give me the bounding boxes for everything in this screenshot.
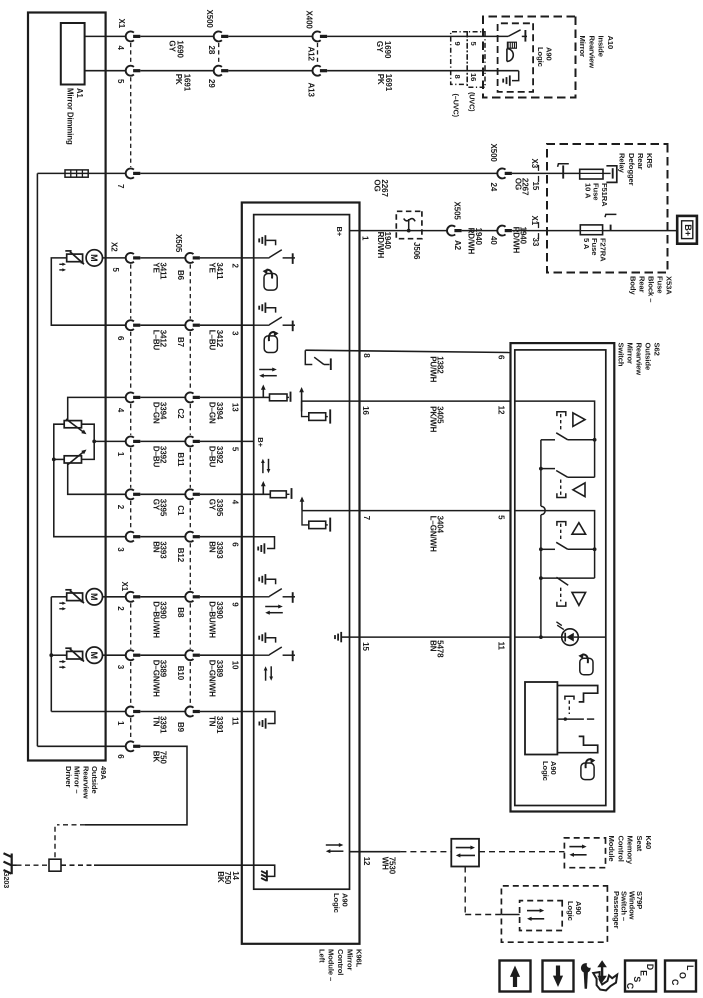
sensor right bus: [82, 424, 95, 459]
svg-text:B8: B8: [176, 607, 185, 618]
svg-text:J506: J506: [412, 242, 421, 260]
svg-text:TN: TN: [151, 716, 160, 727]
S62 fold switch logic box: [525, 682, 557, 755]
pin 7 wire and feedback resistor: [301, 500, 303, 511]
logic box A90 inside S79P (dashed): [520, 901, 563, 931]
row I in-line feedback resistor: [254, 493, 271, 495]
svg-text:X400: X400: [304, 11, 313, 30]
connector X1 pin 3: [126, 650, 134, 660]
svg-text:6: 6: [116, 336, 125, 341]
icon LOC: [665, 961, 696, 992]
fuse holder clip row C: [603, 172, 611, 174]
wire 1690 GY row (A1 pin 4): [85, 35, 127, 37]
triangle right indicator: [572, 592, 586, 605]
svg-text:K96L: K96L: [355, 949, 364, 968]
fuse block pin marks X3-15: [538, 165, 540, 171]
connector X1 pin 7 (in-line): [126, 168, 134, 178]
svg-text:X500: X500: [205, 10, 214, 29]
up-down arrow pair icon: [262, 462, 264, 474]
svg-text:1: 1: [360, 236, 369, 241]
connector X505 pin C1: [185, 489, 193, 499]
svg-text:14: 14: [231, 871, 240, 880]
connector X505 pin B7: [185, 320, 193, 330]
svg-text:D–GN/WH: D–GN/WH: [151, 660, 160, 697]
icon repair wrench with arrows: [581, 963, 591, 973]
wire row H from sensor junction: [94, 440, 126, 442]
S62 left bus down with crossover hop at pin 5 wire: [540, 469, 542, 507]
connector X1 pin 1: [126, 707, 134, 717]
data link box (solid) with arrows: [451, 839, 479, 867]
svg-text:D–GN: D–GN: [208, 402, 217, 424]
S62 switch down (triangle down): [541, 468, 555, 470]
connector X505 pin B12: [185, 532, 193, 542]
svg-text:3: 3: [116, 665, 125, 670]
connector X505 pin B8: [185, 592, 193, 602]
S62 group A: pin 12 feed: [515, 401, 595, 440]
connector X1 pin 5 (in-line): [126, 66, 134, 76]
svg-text:Rearview: Rearview: [81, 766, 90, 799]
svg-text:X3: X3: [530, 159, 539, 169]
fold switch top contact: [557, 686, 597, 702]
svg-text:M: M: [89, 593, 99, 601]
ground return inside A10 (PK wire): [512, 71, 519, 81]
svg-text:Outside: Outside: [90, 766, 99, 794]
svg-text:X1: X1: [120, 582, 129, 592]
svg-text:6: 6: [496, 355, 505, 360]
svg-text:5: 5: [111, 268, 120, 273]
svg-text:Passenger: Passenger: [612, 891, 621, 929]
component A1 Mirror Dimming element box: [61, 23, 85, 85]
wire row C inside KR5: [512, 172, 580, 174]
svg-text:Logic: Logic: [332, 893, 341, 913]
svg-text:GY: GY: [151, 499, 160, 511]
svg-text:D–BU/WH: D–BU/WH: [151, 601, 160, 638]
LED light rays: [556, 622, 561, 626]
wire row H (connector to module): [140, 440, 185, 442]
svg-text:B+: B+: [335, 227, 344, 237]
mirror actuator icon: [67, 651, 83, 659]
svg-text:4: 4: [230, 500, 239, 505]
svg-text:WH: WH: [380, 857, 389, 870]
svg-text:12: 12: [362, 857, 371, 866]
svg-text:2: 2: [230, 264, 239, 269]
svg-text:BK: BK: [216, 871, 225, 883]
svg-text:A10: A10: [606, 36, 615, 50]
svg-text:10: 10: [230, 661, 239, 670]
mirror actuator icon: [67, 593, 83, 601]
option box (-UVC) dash-dot: [451, 32, 468, 85]
svg-text:Outside: Outside: [644, 343, 653, 371]
connector X1 pin 4 (in-line): [126, 31, 134, 41]
connector X2 pin 3: [126, 532, 134, 542]
svg-text:28: 28: [207, 46, 216, 55]
wire 2267 OG from dimming cell: [37, 172, 126, 174]
svg-text:GY: GY: [208, 499, 217, 511]
svg-text:C: C: [670, 979, 680, 986]
splice block square: [49, 859, 61, 871]
terminal B+ box: [677, 216, 697, 244]
up-down arrow pair icon: [265, 669, 267, 681]
svg-text:Rear: Rear: [637, 276, 646, 293]
svg-text:2: 2: [116, 505, 125, 510]
svg-text:Logic: Logic: [566, 901, 575, 921]
svg-text:OG: OG: [513, 178, 522, 190]
wire row G (connector to module): [140, 396, 185, 398]
svg-text:B7: B7: [176, 337, 185, 348]
svg-text:E: E: [638, 970, 648, 976]
S62 switch right (triangle right): [541, 577, 595, 579]
svg-text:Rearview: Rearview: [587, 36, 596, 69]
svg-text:A2: A2: [453, 240, 462, 251]
dashed wire to K40 module: [479, 851, 564, 853]
chassis ground inside K96L: [266, 870, 268, 881]
fuse F51RA 10 A: [580, 169, 603, 179]
arrows inside K40: [569, 846, 583, 848]
dome lamp inside A10: [507, 42, 516, 48]
fuse block pin marks X1-33: [538, 222, 540, 228]
svg-text:1: 1: [116, 721, 125, 726]
svg-text:X1: X1: [530, 216, 539, 226]
left-right arrow pair icon: [259, 369, 274, 371]
icon scroll down: [543, 961, 574, 992]
connector X2 pin 1: [126, 436, 134, 446]
svg-text:Left: Left: [317, 949, 326, 963]
svg-text:PU/WH: PU/WH: [428, 356, 437, 382]
svg-text:15: 15: [361, 642, 370, 651]
svg-text:L: L: [685, 965, 695, 971]
svg-text:3: 3: [116, 547, 125, 552]
wire 1691 PK row (A1 pin 5): [85, 70, 127, 72]
module box S79P Window Switch - Passenger (dashed): [501, 886, 607, 942]
svg-text:X2: X2: [110, 242, 119, 252]
svg-text:4: 4: [116, 46, 125, 51]
splice pack J506 (dashed box): [396, 211, 422, 238]
svg-text:Block –: Block –: [646, 276, 655, 302]
svg-text:B10: B10: [176, 666, 185, 681]
svg-text:D–GN: D–GN: [151, 402, 160, 424]
svg-text:11: 11: [496, 642, 505, 651]
connector X2 pin 6: [126, 320, 134, 330]
wire row J (connector to module): [140, 536, 185, 538]
svg-text:Body: Body: [628, 276, 637, 295]
svg-text:S: S: [632, 976, 642, 982]
svg-text:M: M: [89, 651, 99, 659]
sensor wiper arrow 2: [67, 452, 84, 465]
relay contact on row D: [610, 225, 612, 231]
wire row G to sensor wiper 1: [68, 397, 126, 420]
wire 750 BK dashed to splice: [57, 824, 85, 826]
svg-text:A1: A1: [75, 88, 84, 99]
connector X400 pin A13: [312, 66, 320, 76]
svg-text:Control: Control: [336, 949, 345, 975]
wire X2-5 row: [103, 257, 127, 259]
svg-text:Defogger: Defogger: [627, 153, 636, 186]
dashed wire to K40: [400, 851, 451, 853]
svg-text:BN: BN: [208, 541, 217, 553]
svg-text:B11: B11: [176, 452, 185, 467]
mirror glass pictogram: [580, 658, 593, 675]
wire row K: [103, 596, 127, 598]
fold switch common: [557, 718, 584, 720]
svg-text:6: 6: [230, 542, 239, 547]
svg-text:C: C: [625, 983, 635, 990]
connector X1 pin 6 (750 BK): [126, 741, 134, 751]
wire row L: [103, 654, 127, 656]
svg-text:L–GN/WH: L–GN/WH: [428, 516, 437, 553]
mirror actuator icon: [67, 254, 83, 262]
fuse F27RA 5 A: [580, 225, 602, 235]
svg-text:Mirror Dimming: Mirror Dimming: [66, 88, 75, 145]
connector face X500 dashed link: [218, 43, 220, 64]
svg-text:Mirror: Mirror: [578, 36, 587, 57]
svg-text:2: 2: [116, 606, 125, 611]
connector X505 pin B10: [185, 650, 193, 660]
connector X505 pin A2: [447, 226, 455, 236]
S62 illumination wire (pin 11) through LED: [515, 636, 562, 638]
svg-text:B+: B+: [256, 437, 265, 447]
wire row I to sensor wiper 2: [68, 463, 126, 494]
movement arrows: [59, 661, 63, 663]
svg-text:Relay: Relay: [618, 153, 627, 174]
row G in-line feedback resistor: [254, 396, 270, 398]
connector X505 pin B6: [185, 253, 193, 263]
svg-text:C1: C1: [176, 505, 185, 516]
svg-text:Seat: Seat: [635, 836, 644, 852]
icon scroll up: [500, 961, 531, 992]
button link dashes (right): [560, 588, 562, 602]
svg-text:L–BU: L–BU: [151, 330, 160, 351]
triangle left indicator: [572, 523, 586, 535]
svg-text:Mirror: Mirror: [345, 949, 354, 970]
svg-text:PK/WH: PK/WH: [428, 406, 437, 432]
svg-text:5: 5: [230, 447, 239, 452]
wire row M (3391 TN return): [51, 711, 126, 713]
svg-text:5: 5: [496, 515, 505, 520]
svg-text:29: 29: [207, 79, 216, 88]
svg-text:B12: B12: [176, 548, 185, 563]
ground G203: [11, 854, 13, 875]
svg-text:X505: X505: [174, 234, 183, 253]
wire pin 14 inside K96L to chassis ground: [242, 865, 275, 876]
svg-text:49A: 49A: [99, 766, 108, 780]
svg-text:Mirror: Mirror: [625, 343, 634, 364]
svg-text:8: 8: [362, 353, 371, 358]
relay contact KR5 on row C: [562, 165, 564, 178]
wire pin 12 (7530 WH): [350, 851, 401, 853]
switch inside A10 on GY wire: [508, 30, 520, 37]
svg-text:(UVC): (UVC): [468, 92, 477, 112]
svg-text:Switch: Switch: [616, 343, 625, 367]
connector X400 pin A12: [312, 31, 320, 41]
svg-text:O: O: [678, 972, 688, 979]
connector face X1 dashed link: [130, 43, 132, 64]
svg-text:GY: GY: [375, 41, 384, 53]
sensor resistor 2: [64, 456, 81, 463]
connector X2 pin 4: [126, 392, 134, 402]
fuse block box KR5/X53A (dashed): [547, 144, 668, 273]
mirror glass pictogram: [581, 763, 594, 780]
wire row I (connector to module): [140, 493, 185, 495]
outlined branch arrow: [593, 972, 617, 990]
svg-text:13: 13: [230, 403, 239, 412]
svg-text:Rearview: Rearview: [635, 343, 644, 376]
wire row D to B+ terminal: [603, 230, 677, 232]
wire into S79P inner box: [501, 914, 519, 916]
sensor resistor 1: [64, 421, 81, 428]
svg-text:10 A: 10 A: [583, 183, 592, 199]
svg-text:7: 7: [362, 516, 371, 521]
svg-text:12: 12: [496, 406, 505, 415]
triangle down indicator: [573, 483, 585, 497]
dashed drop from data link box to S79P: [464, 867, 466, 915]
switch box S62 Outside Rearview Mirror Switch: [511, 343, 615, 811]
connector face X400 dashed link: [317, 43, 319, 64]
svg-text:PK: PK: [376, 74, 385, 85]
svg-text:4: 4: [116, 408, 125, 413]
wire row N (750 BK): [37, 745, 126, 747]
S62 switch left (triangle left): [541, 548, 555, 550]
svg-text:Mirror –: Mirror –: [73, 766, 82, 793]
wire X2-6 row (right part): [140, 324, 185, 326]
svg-text:Control: Control: [616, 836, 625, 862]
module box K40 Seat Memory Control Module (dashed): [564, 838, 605, 868]
wire pin 7 to S62 pin 5: [350, 510, 511, 512]
svg-text:Logic: Logic: [541, 761, 550, 781]
fold motor return L-wire: [51, 258, 126, 325]
svg-text:L–BU: L–BU: [208, 330, 217, 351]
svg-text:9: 9: [453, 42, 462, 46]
svg-text:BN: BN: [428, 640, 437, 652]
fold switch bottom contact: [557, 736, 597, 752]
svg-text:Driver: Driver: [64, 766, 73, 787]
svg-text:A12: A12: [306, 47, 315, 62]
motor M: [86, 589, 102, 605]
left-right arrow pair icon: [265, 606, 280, 608]
button link dashes (left): [560, 524, 562, 542]
internal switch to ground: [254, 257, 270, 259]
svg-text:Module: Module: [607, 836, 616, 862]
internal switch to ground: [254, 596, 270, 598]
svg-text:G203: G203: [2, 871, 11, 888]
svg-text:X505: X505: [452, 202, 461, 221]
electrochromic element (segmented) on row C: [65, 170, 88, 177]
logic box A90 inside K96L: [254, 215, 350, 890]
svg-text:(–UVC): (–UVC): [451, 94, 460, 118]
svg-text:PK: PK: [174, 74, 183, 85]
wire 1940 RD/WH from K96L pin 1 (B+): [350, 230, 448, 232]
pin 16 wire and feedback resistor: [301, 390, 303, 411]
svg-text:B6: B6: [176, 270, 185, 281]
LED lamp in S62: [562, 629, 579, 646]
connector X2 pin 5: [126, 253, 134, 263]
svg-text:S62: S62: [653, 343, 662, 356]
connector X500 pin 28: [214, 31, 222, 41]
S62 switch up (triangle up): [541, 439, 555, 441]
connector X505 pin B11: [185, 436, 193, 446]
button link dashes (down): [560, 480, 562, 496]
svg-text:24: 24: [489, 183, 498, 192]
connector X505 pin B9: [185, 707, 193, 717]
svg-text:YE: YE: [151, 262, 160, 273]
dashed lead to G203: [17, 864, 50, 866]
svg-text:C2: C2: [176, 408, 185, 419]
arrows inside S79P logic: [527, 910, 541, 912]
svg-text:16: 16: [361, 406, 370, 415]
svg-text:M: M: [89, 254, 99, 262]
sensor wiper arrow 1: [66, 419, 84, 432]
connector X500 pin 24: [497, 168, 505, 178]
option box (UVC) dash-dot: [467, 32, 485, 88]
motor return bus: [50, 597, 52, 712]
svg-text:6: 6: [116, 754, 125, 759]
svg-text:RD/WH: RD/WH: [467, 228, 476, 255]
component box A10 Inside Rearview Mirror (dashed): [483, 17, 576, 98]
svg-text:RD/WH: RD/WH: [376, 232, 385, 259]
internal switch to ground: [254, 324, 270, 326]
component box 49A Outside Rearview Mirror - Driver: [28, 13, 106, 761]
svg-text:D–GN/WH: D–GN/WH: [208, 660, 217, 697]
svg-text:Module –: Module –: [327, 949, 336, 981]
svg-text:X53A: X53A: [664, 276, 673, 295]
wire pin 8 to S62 pin 6: [305, 350, 510, 352]
svg-text:X500: X500: [489, 144, 498, 163]
svg-text:X1: X1: [117, 19, 126, 29]
connector X500 pin 29: [214, 66, 222, 76]
motor M: [86, 250, 102, 266]
left-right arrow pair icon: [326, 844, 341, 846]
wire pin 16 to S62 pin 12: [350, 400, 511, 402]
svg-text:GY: GY: [168, 40, 177, 52]
svg-text:11: 11: [230, 717, 239, 726]
inner box of S62: [515, 350, 606, 806]
svg-text:D–BU/WH: D–BU/WH: [208, 601, 217, 638]
svg-text:3: 3: [230, 331, 239, 336]
connector X2 pin 2: [126, 489, 134, 499]
svg-text:16: 16: [469, 73, 478, 81]
svg-text:TN: TN: [208, 716, 217, 727]
triangle up indicator: [573, 413, 585, 427]
svg-text:5 A: 5 A: [582, 238, 591, 250]
row M internal ground: [254, 712, 275, 724]
svg-text:9: 9: [230, 602, 239, 607]
mirror glass pictogram: [264, 336, 277, 353]
svg-text:5: 5: [116, 79, 125, 84]
svg-text:Memory: Memory: [626, 836, 635, 865]
icon DESC: [625, 961, 656, 992]
svg-text:15: 15: [531, 182, 540, 191]
movement arrows: [59, 602, 63, 604]
svg-text:1: 1: [116, 452, 125, 457]
svg-text:KR5: KR5: [645, 153, 654, 169]
svg-text:40: 40: [489, 236, 498, 245]
svg-text:7: 7: [116, 184, 125, 189]
connector X1 pin 2: [126, 592, 134, 602]
fold switch button (top): [565, 696, 574, 699]
connector X500 pin 40: [497, 226, 505, 236]
svg-text:B+: B+: [683, 224, 693, 236]
connector X505 pin C2: [185, 392, 193, 402]
svg-text:Logic: Logic: [536, 47, 545, 67]
motor M: [86, 647, 102, 663]
svg-text:YE: YE: [208, 262, 217, 273]
sensor left bus: [54, 424, 126, 537]
pin 15 internal ground and wire 5478 BN: [334, 635, 336, 639]
module box K96L Mirror Control Module - Left: [242, 203, 360, 944]
svg-text:BN: BN: [151, 541, 160, 553]
connector face dashed links (X2/X505 columns): [130, 264, 132, 318]
svg-text:33: 33: [531, 238, 540, 247]
pin 8 internal switch: [305, 350, 312, 364]
